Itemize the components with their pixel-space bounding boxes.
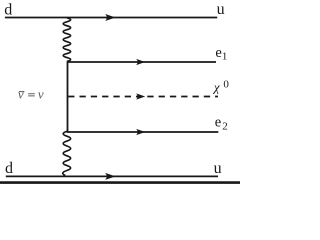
arrow: top quark line <box>105 14 115 21</box>
svg-text:d: d <box>4 2 12 19</box>
wire: neutralino dashed line <box>68 96 218 98</box>
equals sign of nubar = nu <box>28 94 35 96</box>
svg-text:χ: χ <box>212 80 220 95</box>
svg-text:0: 0 <box>223 79 229 91</box>
wire: electron line e2 <box>68 131 219 133</box>
wire: bottom quark line d to u <box>6 175 218 177</box>
bottom rule <box>0 181 240 184</box>
arrow: bottom quark line <box>105 173 115 180</box>
svg-text:u: u <box>217 1 225 18</box>
boson W1: upper wavy propagator <box>63 18 70 62</box>
arrow: e1 line <box>136 59 145 65</box>
label nubar = nu <box>18 86 44 101</box>
svg-text:ν: ν <box>38 86 44 101</box>
overline of nubar <box>19 91 25 93</box>
svg-text:ν: ν <box>18 86 24 101</box>
arrow: neutralino line <box>136 93 145 99</box>
boson W2: lower wavy propagator <box>63 131 71 175</box>
arrow: e2 line <box>136 129 145 135</box>
svg-text:1: 1 <box>222 51 228 63</box>
wire: vertical selectron line <box>67 61 69 133</box>
svg-text:e: e <box>215 114 221 130</box>
wire: electron line e1 <box>68 61 217 63</box>
svg-text:d: d <box>5 160 13 177</box>
wire: top quark line d to u <box>5 17 217 19</box>
svg-text:u: u <box>214 160 222 177</box>
svg-text:e: e <box>215 45 221 61</box>
svg-text:2: 2 <box>222 121 228 133</box>
